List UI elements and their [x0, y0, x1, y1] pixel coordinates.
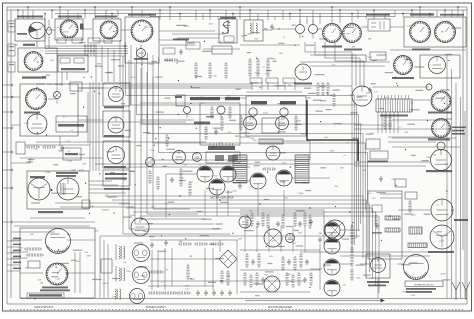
tube V28 — [324, 259, 340, 275]
tube V18 — [209, 179, 225, 195]
svg-text:R-203: R-203 — [254, 72, 259, 74]
svg-text:5000: 5000 — [82, 164, 86, 166]
tube V13 — [266, 146, 280, 160]
svg-text:X-101: X-101 — [289, 281, 294, 283]
box small relay K7 — [186, 42, 200, 49]
resistor R72 — [178, 291, 189, 294]
box demod border — [246, 96, 306, 136]
svg-text:L-7: L-7 — [182, 178, 185, 180]
tube V30 — [239, 216, 251, 228]
box top label c — [283, 78, 295, 83]
box elev receiver — [420, 55, 460, 78]
wire band h11 — [390, 26, 404, 28]
tube V26 — [324, 222, 340, 238]
wire servo h3 — [388, 136, 439, 138]
wire demod h3 — [140, 102, 205, 104]
resistor R11 vert — [208, 64, 211, 77]
resistor bank right c — [326, 84, 329, 94]
capacitor C8 — [212, 290, 216, 296]
resistor R91 — [165, 136, 168, 145]
wire bundle left of meters — [89, 82, 91, 171]
meter M4 — [109, 87, 124, 102]
svg-text:6SN7: 6SN7 — [352, 238, 356, 240]
label train ind — [322, 46, 342, 48]
lamp I1 leads — [48, 20, 50, 41]
label director bar — [24, 112, 40, 114]
svg-text:L-7: L-7 — [191, 182, 194, 184]
box pot P5 — [28, 261, 40, 268]
wire band h66 — [310, 65, 385, 67]
motor M1 small — [137, 49, 146, 58]
wire elev h4 — [340, 255, 430, 257]
svg-text:50M: 50M — [363, 170, 367, 172]
label aft relay — [428, 139, 450, 141]
resistor R78 — [212, 242, 222, 245]
tube V29b rect — [264, 276, 280, 292]
svg-text:R-14: R-14 — [200, 97, 204, 99]
wire mid bus 1 — [112, 200, 366, 265]
wire band h16 — [240, 44, 300, 46]
label fwd relay — [428, 112, 452, 114]
wire right h162 — [354, 161, 430, 163]
resistor R54 — [264, 167, 274, 170]
box resistor block — [409, 227, 422, 234]
box atten adapter — [103, 170, 130, 186]
top bus junction dots — [17, 9, 19, 11]
svg-text:50M: 50M — [241, 36, 245, 38]
wire demod h1 — [210, 97, 246, 99]
tube V6 small — [309, 25, 318, 34]
selsyn B3 trainer — [435, 22, 456, 43]
meter M5 — [108, 117, 124, 133]
tube V27 — [324, 238, 340, 254]
box local fire relay — [368, 19, 390, 31]
wire band h62 — [300, 61, 390, 63]
box small elev a — [405, 192, 417, 199]
svg-text:C-41: C-41 — [407, 25, 411, 27]
svg-text:0.5: 0.5 — [71, 130, 73, 132]
wire band h14 — [160, 44, 196, 46]
motor amp component grid — [245, 216, 248, 227]
svg-text:0.1: 0.1 — [344, 155, 346, 157]
wire band h12 — [15, 44, 18, 46]
bar level — [251, 101, 267, 104]
svg-text:C-41: C-41 — [408, 63, 412, 65]
box coincidence meter 3 — [103, 141, 130, 168]
svg-text:1 MEG: 1 MEG — [45, 172, 51, 174]
tube V5 small — [296, 25, 305, 34]
svg-text:50M: 50M — [36, 39, 40, 41]
wire long h164 — [95, 163, 360, 165]
resistor R61 — [28, 253, 42, 256]
tube V14b — [193, 153, 202, 162]
svg-text:0.1: 0.1 — [68, 151, 70, 153]
wire ps stubs — [7, 240, 20, 242]
label speed relay servo — [22, 77, 46, 79]
svg-text:0.1: 0.1 — [256, 227, 258, 229]
wire ps v2 — [164, 248, 166, 290]
capacitor C9b — [228, 290, 232, 296]
svg-text:2-150: 2-150 — [71, 169, 75, 171]
dial B1 azimuth — [131, 20, 153, 42]
wire ps top long — [100, 235, 360, 237]
capacitor C21 — [368, 87, 372, 93]
wire ship h2 — [20, 272, 43, 274]
svg-text:0.5: 0.5 — [198, 165, 200, 167]
wire band h10 — [361, 26, 368, 28]
svg-text:R-309: R-309 — [64, 31, 69, 33]
wire ps v3 — [171, 248, 173, 286]
box lobing motor — [366, 254, 390, 278]
wire ps left v — [99, 236, 101, 298]
svg-text:C-41: C-41 — [185, 289, 189, 291]
resistor Rdbl a — [210, 108, 213, 117]
svg-text:0.1: 0.1 — [164, 285, 166, 287]
wire right bus 0 — [446, 55, 448, 298]
label firing relay — [95, 16, 117, 18]
svg-text:C-306: C-306 — [410, 295, 415, 297]
capacitor C11 — [164, 240, 168, 246]
wire top drops — [17, 10, 19, 19]
svg-text:1 MEG: 1 MEG — [217, 42, 223, 44]
wire right link 0 — [392, 119, 447, 121]
label K7 bar — [173, 39, 189, 41]
resistor R20 vert — [248, 60, 251, 75]
wire elev v1 — [377, 278, 379, 298]
bar below elev label — [406, 288, 436, 290]
wire elev bot 2 — [60, 206, 135, 208]
label train receiver — [392, 77, 414, 79]
wire ship v1 — [74, 252, 76, 293]
capacitor C3 — [379, 176, 383, 182]
svg-text:C-41: C-41 — [294, 165, 298, 167]
svg-text:C-306: C-306 — [356, 278, 361, 280]
wire left mid h8 — [11, 162, 30, 164]
capacitor C6 — [196, 290, 200, 296]
svg-text:R-14: R-14 — [67, 234, 71, 236]
tube V25 — [133, 267, 150, 284]
svg-text:6SN7: 6SN7 — [283, 109, 287, 111]
svg-text:SHIP CIRCUITS: SHIP CIRCUITS — [35, 305, 54, 309]
svg-text:MOTOR AMPLIFIER: MOTOR AMPLIFIER — [268, 305, 292, 309]
tube V12 — [276, 117, 289, 130]
resistor R76 — [180, 242, 190, 245]
resistor R70 — [150, 291, 161, 294]
left terminal stub 6 — [3, 187, 11, 189]
tube Vj — [146, 158, 155, 167]
wire band v20 — [44, 22, 46, 48]
label range trans — [220, 17, 236, 19]
left bus wire 2 — [10, 10, 12, 298]
wire right link 1 — [392, 128, 452, 130]
wire ship h3 — [67, 239, 95, 241]
svg-text:50M: 50M — [346, 34, 350, 36]
wire ps v8 — [219, 240, 221, 252]
wire band h1 — [57, 55, 125, 57]
box modulator body — [206, 152, 240, 163]
svg-text:25M: 25M — [40, 283, 44, 285]
resistor R51 — [188, 183, 191, 194]
junction cap between — [51, 189, 53, 191]
svg-text:R-309: R-309 — [126, 271, 131, 273]
mesh crossing wires — [84, 44, 86, 56]
label round motor — [30, 176, 45, 178]
svg-text:5000: 5000 — [253, 140, 257, 142]
wire ma h4 — [240, 269, 320, 271]
tube V20 — [276, 170, 292, 186]
left terminal stub 5 — [3, 169, 11, 171]
motor M6 speed control — [431, 150, 452, 171]
pot P4b — [184, 107, 191, 114]
motor M9 — [430, 225, 454, 249]
left bus wire 1 — [6, 7, 8, 304]
wire ps h2 — [150, 258, 219, 260]
svg-text:2-150: 2-150 — [185, 285, 189, 287]
box control relay unit — [58, 55, 88, 72]
modulator pins — [209, 143, 211, 146]
wire ps h3 — [150, 280, 305, 282]
bar modulator top — [208, 146, 235, 150]
left terminal stub 0 — [3, 84, 11, 86]
wire mid bus 3 — [126, 208, 373, 279]
svg-text:25M: 25M — [25, 268, 29, 270]
transformer T3 — [119, 246, 120, 259]
resistor R95 — [239, 117, 242, 129]
wire right link 3 — [392, 146, 461, 148]
svg-text:L-7: L-7 — [40, 50, 43, 52]
small lamp I2 — [426, 84, 432, 90]
tube V29 rect — [264, 229, 282, 247]
svg-text:R-203: R-203 — [263, 113, 268, 115]
wire elev out 3 — [89, 188, 122, 190]
label under dial — [134, 58, 148, 60]
wire elev h2 — [397, 263, 404, 265]
capacitor C22 — [214, 129, 218, 135]
wire ship h5 — [65, 272, 95, 274]
motor M1 detail — [138, 45, 144, 54]
box top label b — [266, 78, 278, 83]
svg-text:R-14: R-14 — [270, 256, 274, 258]
svg-text:R-203: R-203 — [441, 274, 446, 276]
capacitor C9 — [220, 290, 224, 296]
svg-text:0.1: 0.1 — [283, 37, 285, 39]
svg-text:6SN7: 6SN7 — [87, 255, 91, 257]
svg-text:C-41: C-41 — [228, 132, 232, 134]
resistor R40 — [28, 145, 38, 148]
svg-text:C-306: C-306 — [55, 278, 60, 280]
top small box row — [57, 38, 66, 43]
box director train unit — [20, 84, 78, 136]
svg-text:25M: 25M — [433, 155, 437, 157]
svg-text:1 MEG: 1 MEG — [102, 283, 108, 285]
svg-text:1 MEG: 1 MEG — [47, 84, 53, 86]
wire meteramp h3 — [292, 177, 330, 179]
svg-text:0.1: 0.1 — [63, 116, 65, 118]
terminal box edge 1 — [8, 21, 15, 32]
wire arrow line — [245, 300, 382, 302]
label elev ind — [344, 49, 362, 51]
resistor R10 vert — [194, 64, 197, 77]
resistor R21 vert — [256, 60, 259, 75]
resistor R41 — [44, 145, 54, 148]
tube V1 value bar — [17, 33, 27, 35]
resistor Rdbl b — [228, 108, 231, 117]
capacitor C23 — [238, 183, 242, 189]
box small u1 — [370, 52, 386, 60]
label coincidence — [104, 166, 126, 168]
wire ps h4 — [148, 285, 214, 287]
svg-text:C-41: C-41 — [346, 142, 350, 144]
motor M11 lobing — [371, 258, 386, 273]
box right elev stand — [27, 171, 89, 209]
svg-text:50M: 50M — [122, 179, 126, 181]
wire band h18 — [390, 49, 420, 51]
svg-text:6SN7: 6SN7 — [97, 64, 101, 66]
wire ps v6 — [157, 250, 159, 288]
transformer IF2 — [295, 154, 309, 156]
bar modulator inner b — [228, 155, 238, 161]
pot P3 — [280, 108, 288, 116]
tube V22 rect — [325, 220, 345, 240]
left terminal stub 4 — [3, 151, 11, 153]
wire band h15 — [203, 48, 240, 50]
resistor bank right a — [316, 84, 319, 94]
transformer T5b — [115, 289, 116, 299]
capacitor C5 — [318, 237, 322, 243]
selsyn B2 pointer — [410, 22, 431, 43]
svg-text:50M: 50M — [179, 241, 183, 243]
bottom bus wire 1 — [7, 303, 467, 305]
wire tube drops — [204, 190, 206, 216]
tube V15 track amp — [57, 178, 79, 200]
wire elev h3 — [300, 251, 430, 253]
box gun order meter — [55, 19, 83, 40]
label right of b7 — [452, 127, 466, 129]
wire band h3 — [159, 40, 186, 42]
svg-text:5000: 5000 — [102, 209, 106, 211]
resistor R80 chain — [350, 226, 353, 243]
wire ma v1 — [319, 244, 321, 290]
pot P1 leads — [56, 87, 58, 104]
svg-text:X-101: X-101 — [264, 275, 269, 277]
wire right bus 2 — [455, 83, 457, 298]
svg-text:25M: 25M — [298, 233, 302, 235]
selsyn B6 forward relay — [431, 91, 451, 111]
tube V14a — [173, 151, 186, 164]
svg-text:C-41: C-41 — [370, 133, 374, 135]
svg-text:0.5: 0.5 — [35, 149, 37, 151]
dial V7 train indicator — [323, 24, 342, 43]
terminal box edge 2 — [8, 44, 15, 56]
wire long h88 — [78, 87, 252, 89]
resistor bank right d — [332, 95, 335, 105]
svg-text:L-7: L-7 — [265, 74, 268, 76]
capacitor Cj — [170, 177, 174, 183]
dial B8 ship freq — [46, 263, 68, 285]
svg-text:R-309: R-309 — [68, 161, 73, 163]
svg-text:1-W: 1-W — [374, 92, 378, 94]
svg-text:50M: 50M — [238, 239, 242, 241]
resistor R31 — [388, 116, 391, 128]
svg-text:R-203: R-203 — [130, 215, 135, 217]
resistor R22 vert — [266, 60, 269, 75]
tube V1 turret relay — [29, 22, 46, 39]
wire band h7 — [159, 30, 215, 32]
wire ship h4 — [11, 251, 28, 253]
goalpost struct — [251, 82, 253, 90]
wire long h167 — [130, 166, 250, 168]
box elev section border — [368, 191, 402, 259]
capacitor Csec — [375, 223, 379, 229]
svg-text:0.1: 0.1 — [262, 66, 264, 68]
svg-text:R-14: R-14 — [129, 206, 133, 208]
svg-text:R-203: R-203 — [296, 120, 301, 122]
box transformer T1 — [219, 19, 237, 43]
svg-text:50M: 50M — [340, 168, 344, 170]
box top label a — [250, 78, 262, 83]
left terminal stub 3 — [3, 127, 11, 129]
wire left mid v2 — [59, 136, 61, 146]
wire left mid h1 — [25, 144, 90, 146]
box coincidence meter 2 — [103, 111, 130, 137]
resistor R12 vert — [224, 64, 227, 77]
transformer T1 winding — [222, 20, 230, 34]
resistor R90 — [166, 58, 176, 61]
label demod bar — [190, 97, 220, 100]
mid bus dots — [179, 195, 181, 197]
wire demod h2 — [240, 132, 250, 134]
wire band v21 — [56, 72, 58, 86]
svg-text:2-150: 2-150 — [287, 274, 291, 276]
wire elev out 1 — [89, 180, 112, 182]
svg-text:C-306: C-306 — [18, 248, 23, 250]
tube V28b — [324, 280, 340, 296]
svg-text:5000: 5000 — [76, 261, 80, 263]
resistor R71 — [164, 291, 175, 294]
box transformer T2 — [244, 20, 263, 41]
svg-text:25M: 25M — [151, 206, 155, 208]
tube V24 — [133, 245, 150, 262]
resistor R30 — [383, 116, 386, 128]
svg-text:R-203: R-203 — [79, 170, 84, 172]
svg-text:C-306: C-306 — [112, 297, 117, 299]
svg-text:5000: 5000 — [183, 165, 187, 167]
svg-text:50M: 50M — [250, 138, 254, 140]
motor M10 ship — [46, 229, 71, 254]
wire delay h — [283, 140, 310, 142]
resistor R99b — [226, 272, 229, 284]
box thermostat — [370, 151, 388, 159]
wire long h122 — [56, 121, 186, 123]
wire elev h1 — [360, 263, 371, 265]
label speed relay bar — [23, 44, 35, 46]
tube V19 — [250, 173, 266, 189]
wire servo h6 — [354, 124, 392, 126]
svg-text:R-203: R-203 — [131, 77, 136, 79]
box pointer telescope — [404, 17, 466, 47]
svg-text:6SN7: 6SN7 — [330, 150, 334, 152]
dial V2 gun order — [60, 20, 78, 38]
label pointer scope bar — [410, 14, 434, 16]
svg-text:R-309: R-309 — [241, 161, 246, 163]
label torsion motor — [454, 219, 468, 221]
tube V1 pin stub — [36, 41, 38, 47]
wire right bus 4 — [464, 111, 466, 298]
label coinc meter 2 — [104, 135, 124, 137]
right bus wire 2 — [462, 10, 464, 250]
transformer T2 winding — [250, 23, 251, 33]
svg-text:50M: 50M — [368, 39, 372, 41]
